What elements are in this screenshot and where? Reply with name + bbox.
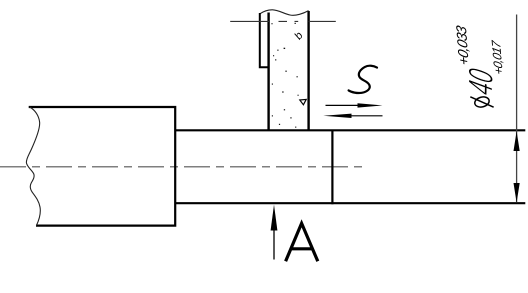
grinding wheel right edge [307,11,309,130]
feed direction arrow left [348,115,383,117]
section label A [286,223,318,261]
shoulder step line [331,130,333,205]
feed direction arrow right [326,104,363,106]
dimension arrowhead down [514,183,520,203]
texture triangle on wheel edge [300,99,306,104]
wheel axis line [230,20,336,22]
dimension line for diameter 40 [516,15,518,203]
lower tolerance +0,017 [489,37,506,77]
feed label S (script) [349,66,377,93]
dimension arrowhead up [514,131,520,151]
abrasive speckles inside wheel [271,23,298,128]
grinding wheel break line (wavy top) [260,10,309,15]
workpiece large section (left shaft step) [29,106,177,227]
workpiece ground section top line [175,129,525,131]
wheel holder bracket [260,13,269,67]
workpiece ground section bottom line [175,202,525,204]
svg-text:b: b [292,30,305,42]
break line (wavy left edge of large section) [26,107,40,226]
svg-text:+0,033: +0,033 [454,24,473,67]
grinding wheel left edge [267,13,269,131]
dimension text diameter 40 +0,033/+0,017 [462,65,500,108]
section arrow A (view direction) [273,224,275,260]
svg-text:+0,017: +0,017 [489,39,506,76]
upper tolerance +0,033 [454,23,473,68]
workpiece centerline (shaft axis) [0,166,364,168]
